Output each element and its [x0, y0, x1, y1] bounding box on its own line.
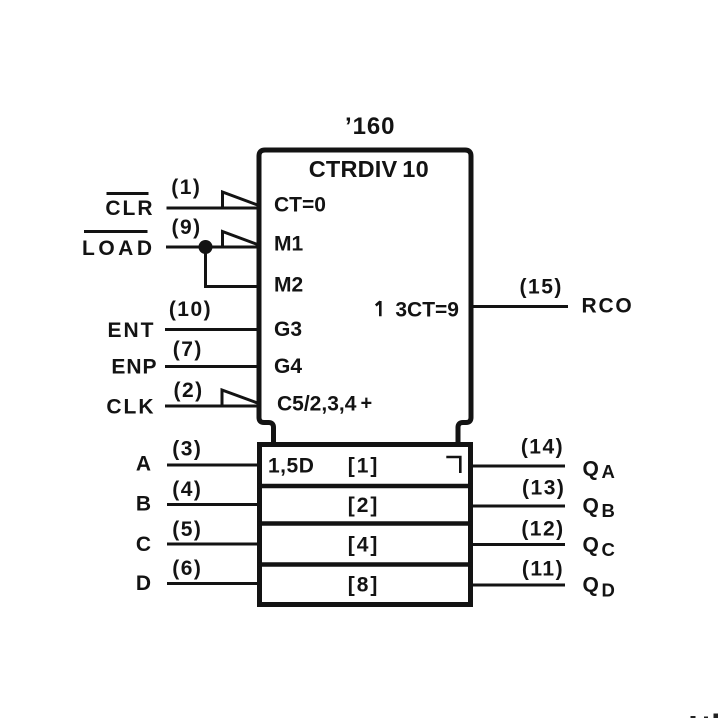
svg-text:M2: M2 [274, 274, 303, 297]
svg-text:G3: G3 [274, 318, 302, 341]
svg-text:LOAD: LOAD [82, 237, 156, 260]
svg-text:(13): (13) [522, 477, 565, 500]
svg-text:(10): (10) [169, 298, 212, 321]
svg-text:C: C [136, 533, 151, 556]
wire QD [471, 584, 565, 587]
svg-text:(11): (11) [522, 558, 564, 581]
svg-text:(9): (9) [172, 216, 202, 239]
svg-text:1,5D: 1,5D [268, 455, 314, 478]
svg-text:(7): (7) [173, 338, 203, 361]
svg-text:[2]: [2] [348, 494, 380, 517]
svg-text:(12): (12) [521, 518, 564, 541]
svg-text:(1): (1) [171, 176, 201, 199]
svg-text:B: B [602, 500, 615, 521]
wire B [167, 503, 260, 506]
wire QC [471, 543, 565, 546]
junction dot on LOAD wire [199, 240, 213, 254]
svg-text:D: D [136, 572, 151, 595]
svg-text:(14): (14) [521, 436, 564, 459]
svg-text:[8]: [8] [348, 574, 380, 597]
wire LOAD branch to M2 [206, 247, 259, 287]
svg-text:RCO: RCO [582, 295, 634, 318]
wire D [167, 582, 260, 585]
svg-text:Q: Q [583, 495, 599, 518]
wire CLK [165, 405, 258, 408]
svg-text:G4: G4 [274, 355, 302, 378]
digit 1 of label 13CT=9 [376, 301, 381, 316]
svg-text:Q: Q [583, 534, 599, 557]
polarity wedge CLR [223, 192, 258, 208]
svg-text:M1: M1 [274, 233, 303, 256]
svg-text:B: B [136, 493, 151, 516]
svg-text:(4): (4) [172, 478, 202, 501]
row divider 4/8 [258, 562, 472, 567]
svg-text:CLK: CLK [106, 396, 155, 419]
row divider 2/4 [258, 521, 472, 526]
svg-text:(6): (6) [172, 557, 202, 580]
wire CLR [167, 207, 259, 210]
svg-text:(3): (3) [172, 438, 202, 461]
svg-text:3CT=9: 3CT=9 [395, 299, 459, 322]
wire ENT [165, 328, 258, 331]
LOAD overline [84, 230, 148, 233]
svg-text:[4]: [4] [348, 534, 380, 557]
counter U1 control block CTRDIV10 outline [259, 150, 471, 445]
wire LOAD [166, 246, 258, 249]
wire QB [471, 505, 565, 508]
svg-text:[1]: [1] [348, 455, 380, 478]
svg-text:ENT: ENT [108, 319, 156, 342]
svg-text:D: D [602, 580, 615, 601]
svg-text:’160: ’160 [345, 113, 395, 140]
svg-text:(5): (5) [172, 518, 202, 541]
wire RCO [471, 305, 568, 308]
polarity wedge CLK [222, 390, 258, 406]
wire A [167, 464, 260, 467]
svg-text:A: A [602, 461, 615, 482]
wire ENP [165, 365, 258, 368]
svg-text:+: + [361, 393, 373, 415]
polarity wedge M1 [223, 232, 258, 247]
page-edge print fragments bottom right [691, 716, 696, 718]
content corner bracket qualifier [446, 457, 460, 473]
svg-text:CT=0: CT=0 [274, 194, 326, 217]
svg-text:A: A [136, 453, 151, 476]
svg-text:C5/2,3,4: C5/2,3,4 [277, 393, 357, 416]
svg-text:(2): (2) [174, 379, 204, 402]
register element block outline [260, 445, 471, 605]
svg-text:C: C [602, 539, 615, 560]
row divider 1/2 [258, 484, 472, 489]
svg-text:ENP: ENP [111, 356, 157, 379]
svg-text:CTRDIV 10: CTRDIV 10 [309, 156, 429, 182]
svg-text:Q: Q [583, 574, 599, 597]
wire QA [471, 465, 565, 468]
svg-text:Q: Q [583, 458, 599, 481]
svg-text:CLR: CLR [105, 197, 154, 220]
wire C [167, 543, 260, 546]
CLR overline [107, 192, 149, 195]
svg-text:(15): (15) [520, 276, 563, 299]
